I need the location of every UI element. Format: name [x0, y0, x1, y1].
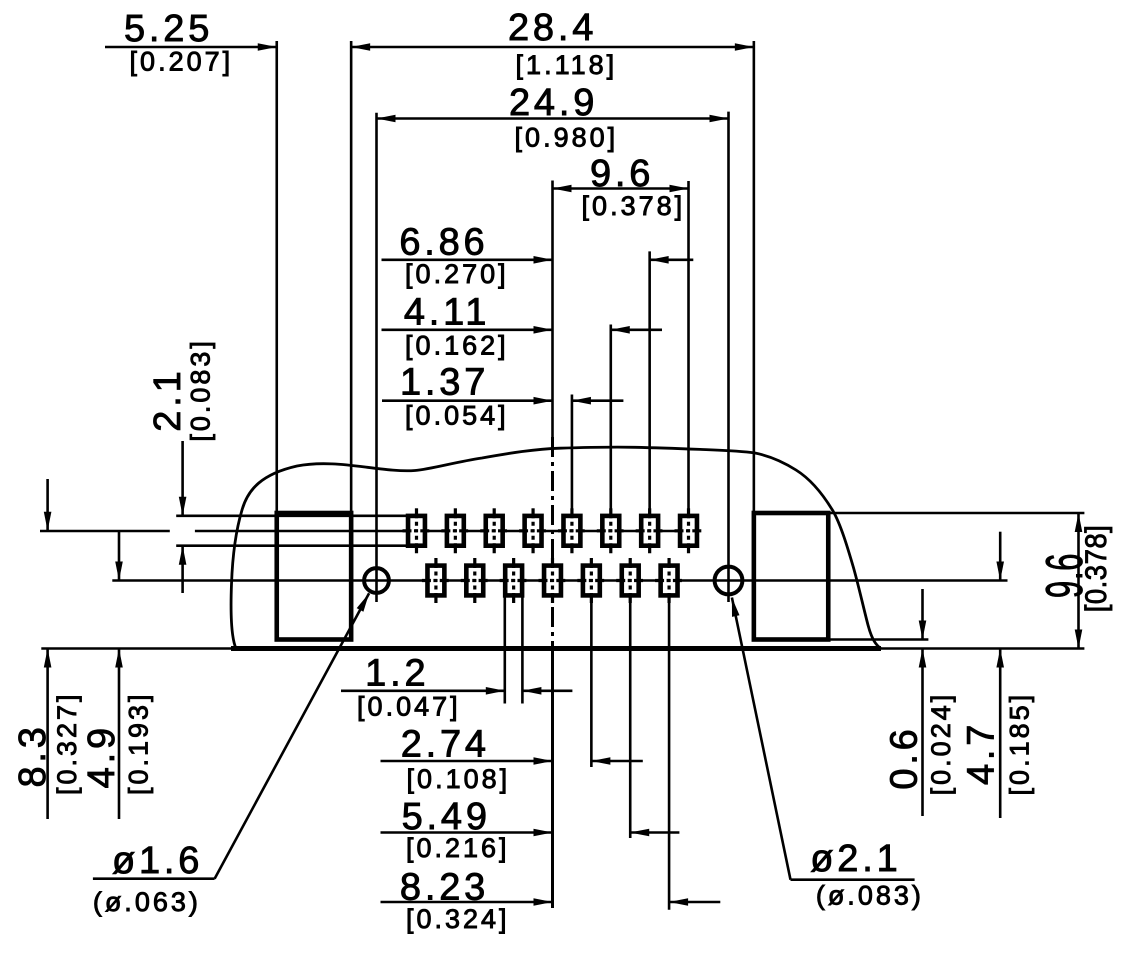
- svg-text:[0.378]: [0.378]: [1080, 525, 1113, 613]
- dim 1.37 line: [382, 399, 553, 402]
- pad B6: [616, 558, 644, 603]
- dim 1.2 arrows: [486, 687, 505, 695]
- dim 2.74 line: [381, 760, 553, 763]
- centerline lower solid segment: [551, 645, 554, 908]
- svg-text:[0.108]: [0.108]: [407, 764, 511, 794]
- ext line left shield left edge (5.25): [275, 41, 278, 513]
- pad T2: [441, 508, 469, 553]
- ext line top pad row center left seg: [40, 530, 170, 533]
- svg-text:1.2: 1.2: [365, 652, 429, 694]
- svg-text:(ø.063): (ø.063): [93, 887, 201, 917]
- dim 1.37 arrows: [534, 397, 553, 405]
- svg-text:[0.083]: [0.083]: [186, 338, 216, 442]
- svg-text:24.9: 24.9: [509, 82, 598, 124]
- ext line right hole center (24.9): [727, 112, 730, 602]
- ext line pad 6.86: [648, 251, 651, 516]
- dim 5.25 line: [105, 46, 277, 49]
- dim 4.9 upper line: [118, 531, 121, 581]
- shield mounting pad left: [277, 513, 351, 640]
- board bottom edge (thick): [231, 646, 881, 651]
- dim 24.9 arrows: [377, 115, 396, 123]
- svg-text:0.6: 0.6: [883, 725, 925, 789]
- dim 24.9 line: [377, 117, 729, 120]
- ext line pad 5.49: [629, 595, 632, 838]
- hole row center line: [112, 579, 1007, 582]
- svg-text:5.49: 5.49: [402, 796, 491, 838]
- ext line pad-row top (y=515.8): [176, 514, 406, 517]
- svg-text:ø2.1: ø2.1: [810, 838, 901, 880]
- dim 4.7 upper line: [999, 532, 1002, 581]
- leader ø1.6 underline: [93, 877, 215, 880]
- dim 2.1 upper line: [181, 441, 184, 516]
- dim 2.1 arrows: [179, 497, 187, 516]
- centerline dash-dot: [551, 437, 554, 645]
- dim 4.7 arrows: [996, 562, 1004, 581]
- dim 5.49 arrows: [534, 829, 553, 837]
- svg-text:2.1: 2.1: [147, 367, 189, 431]
- leader ø2.1 underline: [791, 878, 915, 881]
- svg-text:[1.118]: [1.118]: [516, 50, 618, 80]
- dim 9.6 top arrows: [553, 185, 572, 193]
- ext line right shield top: [828, 512, 1084, 515]
- dim 4.9 lower line: [118, 649, 121, 820]
- svg-text:[0.054]: [0.054]: [405, 401, 509, 431]
- svg-text:[0.193]: [0.193]: [123, 691, 153, 795]
- pad T4: [519, 508, 547, 553]
- dim 8.3 arrows: [44, 512, 52, 531]
- dim 0.6 arrows: [919, 621, 927, 640]
- svg-text:[0.047]: [0.047]: [357, 691, 461, 721]
- ext line pad edge right (1.2): [521, 595, 524, 703]
- leader ø1.6 line: [215, 593, 370, 879]
- svg-text:8.3: 8.3: [12, 723, 54, 787]
- pad T7: [636, 508, 664, 553]
- ext line right shield bottom: [828, 638, 928, 641]
- leader ø2.1 line: [732, 598, 791, 880]
- hole left ø1.6: [364, 568, 389, 593]
- board outline break line (torn edge): [231, 447, 881, 649]
- pad T3: [480, 508, 508, 553]
- ext line left hole center (24.9): [375, 113, 378, 602]
- svg-text:1.37: 1.37: [400, 362, 489, 404]
- svg-text:2.74: 2.74: [401, 723, 490, 765]
- dim 28.4 arrows: [351, 43, 370, 51]
- pad T8: [675, 508, 703, 553]
- svg-text:[0.024]: [0.024]: [926, 692, 956, 796]
- ext line left shield right edge (5.25/28.4): [350, 41, 353, 513]
- svg-text:[0.980]: [0.980]: [515, 123, 619, 153]
- ext line pad 9.6: [687, 181, 690, 516]
- dim 4.9 arrows: [115, 562, 123, 581]
- dim 6.86 arrows: [534, 256, 553, 264]
- svg-text:[0.324]: [0.324]: [406, 904, 510, 934]
- svg-text:4.7: 4.7: [960, 721, 1002, 785]
- dim 5.49 line: [381, 831, 553, 834]
- dim 1.2 line: [341, 689, 505, 692]
- svg-text:[0.162]: [0.162]: [405, 331, 509, 361]
- ext line pad-row bottom (y=545.7): [176, 544, 406, 547]
- svg-text:28.4: 28.4: [508, 7, 597, 49]
- centerline upper solid segment: [551, 181, 554, 441]
- hole right ø2.1: [715, 567, 743, 595]
- leader ø2.1 arrow: [732, 598, 740, 617]
- pad T6: [597, 508, 625, 553]
- svg-text:5.25: 5.25: [124, 8, 213, 50]
- dim 4.7 lower line: [999, 649, 1002, 819]
- svg-text:(ø.083): (ø.083): [816, 880, 924, 910]
- dim 28.4 line: [351, 46, 754, 49]
- ext line pad edge left (1.2): [503, 595, 506, 703]
- ext line right shield left edge (28.4): [753, 41, 756, 513]
- dim 9.6 right line: [1077, 513, 1080, 649]
- board bottom edge extension right: [881, 647, 1084, 650]
- dim 4.11 line: [382, 328, 553, 331]
- dim 9.6 top line: [553, 187, 689, 190]
- pad B4: [539, 558, 567, 603]
- pad T1: [402, 508, 430, 553]
- dim 2.1 lower line: [181, 546, 184, 593]
- dim 8.23 arrows: [534, 898, 553, 906]
- svg-text:[0.270]: [0.270]: [405, 259, 509, 289]
- dim 8.3 lower line: [46, 649, 49, 820]
- board bottom edge extension left: [41, 647, 231, 650]
- ext line pad 1.37: [571, 395, 574, 516]
- svg-text:[0.378]: [0.378]: [582, 191, 686, 221]
- svg-text:6.86: 6.86: [399, 222, 488, 264]
- dim 9.6 right arrows: [1075, 513, 1083, 532]
- top pad row center line: [195, 530, 697, 533]
- svg-text:[0.327]: [0.327]: [52, 691, 82, 795]
- dim 6.86 line: [382, 258, 553, 261]
- ext line pad 2.74: [590, 595, 593, 767]
- pad B5: [577, 558, 605, 603]
- ext line pad 8.23: [668, 595, 671, 909]
- pad B1: [422, 558, 450, 603]
- dim 5.25 arrow: [258, 43, 277, 51]
- leader ø1.6 arrow: [357, 593, 369, 612]
- dim 2.74 arrows: [534, 757, 553, 765]
- svg-text:[0.185]: [0.185]: [1005, 692, 1035, 796]
- svg-text:[0.207]: [0.207]: [130, 47, 234, 77]
- dim 0.6 upper line: [921, 589, 924, 640]
- svg-text:4.9: 4.9: [81, 724, 123, 788]
- svg-text:9.6: 9.6: [590, 153, 654, 195]
- ext line pad 4.11: [609, 325, 612, 516]
- dim 9.6 right text: [1036, 553, 1094, 598]
- svg-text:ø1.6: ø1.6: [112, 840, 203, 882]
- pad B2: [461, 558, 489, 603]
- pad T5: [558, 508, 586, 553]
- pad B3: [500, 558, 528, 603]
- shield mounting pad right: [754, 513, 828, 640]
- svg-text:4.11: 4.11: [404, 292, 490, 334]
- svg-text:8.23: 8.23: [400, 867, 489, 909]
- pad B7: [655, 558, 683, 603]
- svg-text:[0.216]: [0.216]: [406, 833, 510, 863]
- dim 0.6 lower line: [921, 649, 924, 817]
- dim 8.3 upper line: [46, 479, 49, 531]
- dim 4.11 arrows: [534, 326, 553, 334]
- dim 8.23 line: [381, 901, 553, 904]
